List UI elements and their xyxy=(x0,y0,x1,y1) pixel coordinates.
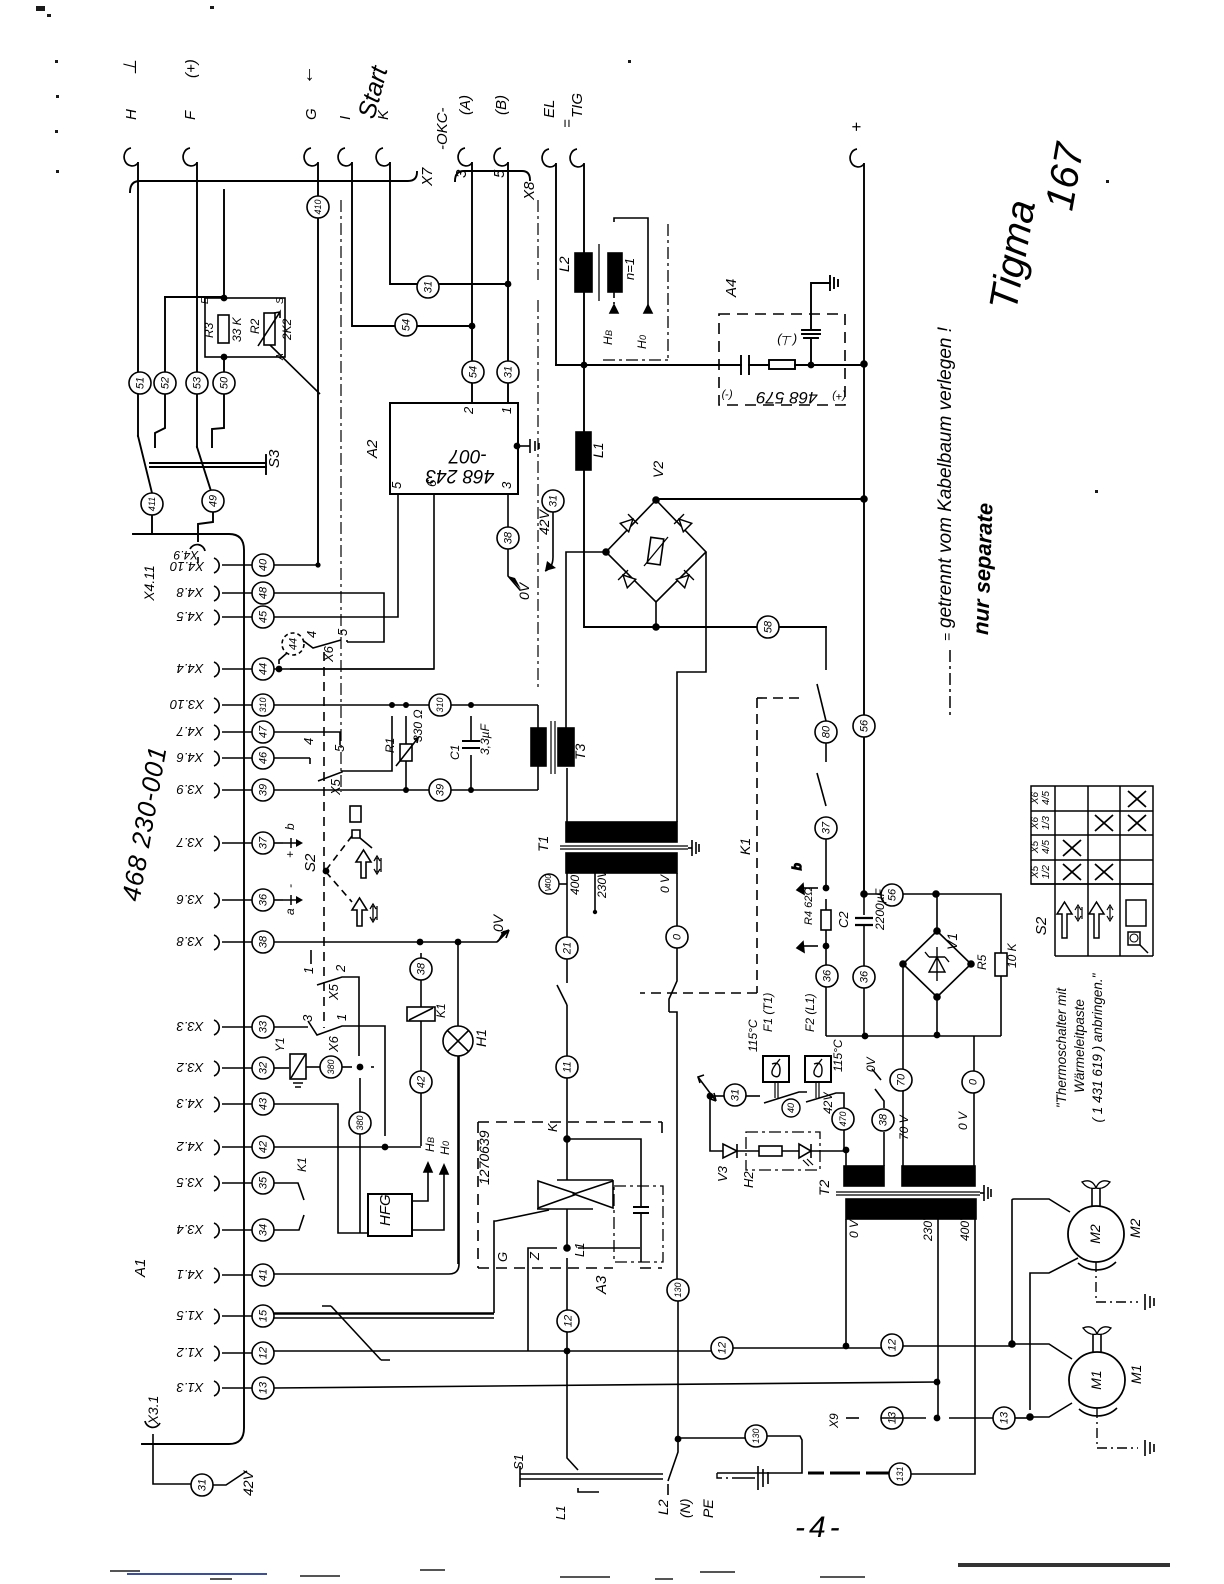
svg-text:X3.5: X3.5 xyxy=(176,1175,205,1190)
svg-text:S1: S1 xyxy=(511,1454,526,1470)
svg-text:K: K xyxy=(375,109,392,120)
svg-text:X4.6: X4.6 xyxy=(176,750,205,765)
svg-text:54: 54 xyxy=(400,319,412,331)
svg-text:X4.2: X4.2 xyxy=(176,1139,205,1154)
svg-text:13: 13 xyxy=(257,1381,269,1394)
svg-text:L2: L2 xyxy=(655,1499,671,1515)
svg-text:R1: R1 xyxy=(383,738,397,753)
svg-text:42V: 42V xyxy=(240,1469,256,1496)
svg-text:R5: R5 xyxy=(975,954,989,970)
svg-text:0 V: 0 V xyxy=(956,1111,970,1130)
svg-text:L1: L1 xyxy=(553,1506,568,1520)
svg-text:2: 2 xyxy=(333,964,348,973)
svg-text:R2: R2 xyxy=(248,318,262,334)
svg-text:15: 15 xyxy=(257,1309,269,1322)
svg-text:H1: H1 xyxy=(473,1029,489,1047)
svg-text:B: B xyxy=(604,330,614,336)
svg-text:53: 53 xyxy=(191,376,203,389)
svg-text:V1: V1 xyxy=(944,933,960,950)
svg-text:330 Ω: 330 Ω xyxy=(411,710,425,742)
svg-text:-007: -007 xyxy=(448,445,487,466)
svg-text:11: 11 xyxy=(561,1061,573,1072)
svg-text:X1.5: X1.5 xyxy=(176,1308,205,1323)
svg-text:X3.3: X3.3 xyxy=(176,1019,205,1034)
svg-text:A1: A1 xyxy=(132,1259,149,1278)
svg-text:X6: X6 xyxy=(1030,791,1041,805)
svg-text:380: 380 xyxy=(355,1115,365,1130)
svg-text:47: 47 xyxy=(257,725,269,738)
svg-text:230V: 230V xyxy=(921,1212,935,1242)
svg-text:1/2: 1/2 xyxy=(1041,865,1052,879)
svg-text:46: 46 xyxy=(257,751,269,764)
svg-text:a: a xyxy=(283,908,297,915)
svg-text:130: 130 xyxy=(751,1428,761,1443)
svg-text:50: 50 xyxy=(218,376,230,389)
svg-text:( 1 431 619 ) anbringen.": ( 1 431 619 ) anbringen." xyxy=(1090,972,1105,1122)
svg-text:=: = xyxy=(939,633,955,641)
svg-text:400V: 400V xyxy=(568,866,582,895)
svg-text:S3: S3 xyxy=(266,449,283,468)
svg-text:L2: L2 xyxy=(556,256,572,272)
svg-text:470: 470 xyxy=(838,1111,848,1126)
svg-text:=: = xyxy=(559,119,576,128)
svg-text:3: 3 xyxy=(453,169,470,178)
svg-text:T3: T3 xyxy=(572,743,588,760)
svg-text:X6: X6 xyxy=(321,645,336,663)
svg-text:37: 37 xyxy=(820,821,832,834)
svg-text:M1: M1 xyxy=(1128,1365,1144,1384)
svg-text:56: 56 xyxy=(886,888,898,901)
svg-text:X5: X5 xyxy=(326,983,341,1001)
svg-text:X7: X7 xyxy=(419,167,436,187)
svg-text:37: 37 xyxy=(257,836,269,849)
svg-text:C1: C1 xyxy=(448,745,462,760)
svg-text:X4.1: X4.1 xyxy=(177,1267,205,1282)
svg-text:X9: X9 xyxy=(827,1413,841,1429)
svg-text:42V: 42V xyxy=(821,1092,835,1114)
svg-text:Z: Z xyxy=(527,1251,542,1261)
svg-text:130: 130 xyxy=(673,1282,683,1297)
svg-text:F: F xyxy=(182,110,199,120)
svg-text:Wärmeleitpaste: Wärmeleitpaste xyxy=(1072,999,1087,1093)
svg-text:H: H xyxy=(423,1143,437,1152)
svg-text:X8: X8 xyxy=(521,181,538,201)
svg-text:K: K xyxy=(545,1122,560,1132)
svg-text:X3.8: X3.8 xyxy=(176,934,205,949)
svg-text:380: 380 xyxy=(326,1059,336,1074)
svg-text:1/3: 1/3 xyxy=(1041,816,1052,830)
svg-text:R3: R3 xyxy=(202,322,216,338)
svg-text:40: 40 xyxy=(257,558,269,571)
svg-text:33: 33 xyxy=(257,1020,269,1033)
svg-text:42: 42 xyxy=(415,1076,427,1088)
svg-text:S2: S2 xyxy=(302,853,319,872)
svg-text:-: - xyxy=(283,884,297,888)
svg-text:(⊥): (⊥) xyxy=(777,333,797,348)
svg-text:31: 31 xyxy=(422,281,434,293)
svg-text:44: 44 xyxy=(287,638,299,650)
svg-text:A2: A2 xyxy=(364,439,381,459)
svg-text:32: 32 xyxy=(257,1062,269,1074)
svg-text:1: 1 xyxy=(499,407,514,414)
svg-text:H: H xyxy=(635,340,649,349)
svg-text:3: 3 xyxy=(499,481,514,489)
svg-text:5: 5 xyxy=(332,744,347,752)
svg-text:V2: V2 xyxy=(650,461,666,478)
svg-text:4/5: 4/5 xyxy=(1041,840,1052,854)
svg-text:F1 (T1): F1 (T1) xyxy=(761,993,775,1032)
svg-text:H: H xyxy=(123,109,140,120)
svg-text:1: 1 xyxy=(334,1014,349,1021)
svg-text:40: 40 xyxy=(786,1103,796,1113)
svg-text:0V: 0V xyxy=(490,913,506,932)
svg-text:n=1: n=1 xyxy=(622,258,637,280)
svg-text:36: 36 xyxy=(257,893,269,906)
svg-text:X4.8: X4.8 xyxy=(176,585,205,600)
svg-text:X3.9: X3.9 xyxy=(177,782,205,797)
svg-text:230V: 230V xyxy=(595,869,609,899)
svg-text:EL: EL xyxy=(541,100,558,118)
svg-text:31: 31 xyxy=(729,1089,741,1101)
svg-text:31: 31 xyxy=(502,366,514,378)
svg-text:0: 0 xyxy=(671,933,683,940)
svg-text:PE: PE xyxy=(700,1499,716,1518)
svg-text:X4.3: X4.3 xyxy=(176,1096,205,1111)
svg-text:A3: A3 xyxy=(593,1275,610,1295)
svg-text:38: 38 xyxy=(257,935,269,948)
svg-text:X1.3: X1.3 xyxy=(176,1380,205,1395)
svg-text:M2: M2 xyxy=(1087,1224,1103,1244)
svg-text:44: 44 xyxy=(257,663,269,675)
svg-text:52: 52 xyxy=(159,377,171,389)
svg-text:E: E xyxy=(200,297,211,304)
svg-text:(B): (B) xyxy=(493,95,510,115)
svg-text:5: 5 xyxy=(491,169,508,178)
svg-text:42: 42 xyxy=(257,1141,269,1153)
svg-text:80: 80 xyxy=(820,725,832,738)
svg-text:0: 0 xyxy=(441,1141,451,1146)
svg-text:411: 411 xyxy=(147,497,157,511)
svg-text:HFG: HFG xyxy=(377,1194,394,1226)
svg-text:21: 21 xyxy=(561,942,573,955)
svg-text:G: G xyxy=(303,108,320,120)
svg-text:T1: T1 xyxy=(535,836,551,852)
svg-text:0: 0 xyxy=(638,335,648,340)
svg-text:K1: K1 xyxy=(295,1157,309,1172)
svg-text:X4.5: X4.5 xyxy=(176,609,205,624)
svg-text:400V: 400V xyxy=(958,1212,972,1241)
svg-text:400: 400 xyxy=(544,874,553,888)
svg-text:4: 4 xyxy=(304,631,319,638)
svg-text:L1: L1 xyxy=(572,1243,587,1257)
svg-text:5: 5 xyxy=(389,481,404,489)
svg-text:36: 36 xyxy=(821,969,833,982)
svg-text:T2: T2 xyxy=(816,1179,832,1196)
svg-text:b: b xyxy=(283,823,297,830)
svg-text:70 V: 70 V xyxy=(897,1114,911,1140)
svg-text:←: ← xyxy=(296,65,318,85)
svg-text:X4.4: X4.4 xyxy=(177,661,205,676)
svg-text:310: 310 xyxy=(435,697,445,712)
svg-text:X4.9: X4.9 xyxy=(173,548,199,562)
svg-text:0V: 0V xyxy=(864,1056,878,1072)
svg-text:115°C: 115°C xyxy=(831,1039,845,1072)
svg-text:⊥: ⊥ xyxy=(120,59,140,75)
svg-text:X6: X6 xyxy=(326,1035,341,1053)
svg-text:X1.2: X1.2 xyxy=(176,1345,205,1360)
svg-text:X3.10: X3.10 xyxy=(169,697,205,712)
svg-text:K1: K1 xyxy=(737,838,753,855)
svg-text:G: G xyxy=(495,1252,510,1262)
svg-text:2K2: 2K2 xyxy=(280,318,294,341)
svg-text:-OKC-: -OKC- xyxy=(434,108,451,151)
svg-text:H: H xyxy=(438,1146,452,1155)
svg-text:1: 1 xyxy=(301,967,316,974)
svg-text:0 V: 0 V xyxy=(658,874,672,893)
svg-text:2: 2 xyxy=(461,406,476,415)
svg-text:K1: K1 xyxy=(434,1003,448,1018)
svg-text:51: 51 xyxy=(134,377,146,389)
svg-text:X3.6: X3.6 xyxy=(176,892,205,907)
svg-text:V3: V3 xyxy=(715,1165,730,1182)
svg-text:M2: M2 xyxy=(1127,1218,1143,1238)
svg-text:4: 4 xyxy=(301,738,316,745)
svg-text:115°C: 115°C xyxy=(746,1019,760,1052)
svg-text:(A): (A) xyxy=(457,95,474,115)
svg-text:0: 0 xyxy=(967,1078,979,1085)
svg-text:468 579: 468 579 xyxy=(756,388,818,407)
svg-text:getrennt vom Kabelbaum verlege: getrennt vom Kabelbaum verlegen ! xyxy=(935,326,956,628)
svg-text:+: + xyxy=(283,851,297,858)
svg-text:(N): (N) xyxy=(677,1499,693,1518)
svg-text:35: 35 xyxy=(257,1176,269,1189)
svg-text:(+): (+) xyxy=(832,390,846,402)
svg-text:C2: C2 xyxy=(836,911,851,928)
svg-text:70: 70 xyxy=(895,1073,907,1086)
svg-text:S2: S2 xyxy=(1033,916,1050,935)
svg-text:39: 39 xyxy=(434,784,446,796)
svg-text:5: 5 xyxy=(335,628,350,636)
svg-text:-4-: -4- xyxy=(795,1511,844,1544)
svg-text:B: B xyxy=(426,1137,436,1143)
svg-text:L1: L1 xyxy=(590,442,606,458)
svg-text:36: 36 xyxy=(858,970,870,983)
svg-text:468 243: 468 243 xyxy=(425,465,494,486)
svg-text:(-): (-) xyxy=(721,389,732,401)
svg-text:V: V xyxy=(544,886,553,892)
svg-text:M1: M1 xyxy=(1088,1370,1104,1389)
svg-text:X5: X5 xyxy=(1030,865,1041,879)
svg-text:4/5: 4/5 xyxy=(1041,791,1052,805)
svg-text:38: 38 xyxy=(877,1113,889,1126)
svg-text:131: 131 xyxy=(895,1466,905,1481)
svg-text:49: 49 xyxy=(207,495,219,507)
svg-text:410: 410 xyxy=(313,199,323,214)
svg-text:A: A xyxy=(275,353,286,361)
svg-text:"Thermoschalter mit: "Thermoschalter mit xyxy=(1054,987,1069,1109)
svg-text:I: I xyxy=(337,116,354,120)
svg-text:X4.11: X4.11 xyxy=(141,565,157,602)
svg-text:10 K: 10 K xyxy=(1005,942,1019,968)
svg-text:X4.7: X4.7 xyxy=(176,724,205,739)
svg-text:H: H xyxy=(601,336,615,345)
svg-text:nur separate: nur separate xyxy=(968,502,998,635)
svg-text:33 K: 33 K xyxy=(230,316,244,342)
svg-text:58: 58 xyxy=(762,620,774,633)
svg-text:X3.7: X3.7 xyxy=(176,835,205,850)
svg-text:X3.2: X3.2 xyxy=(176,1060,205,1075)
svg-text:X3.4: X3.4 xyxy=(177,1222,205,1237)
svg-text:3: 3 xyxy=(300,1014,315,1022)
svg-text:45: 45 xyxy=(257,610,269,623)
svg-text:41: 41 xyxy=(257,1269,269,1281)
svg-text:Y1: Y1 xyxy=(273,1037,287,1052)
svg-text:(+): (+) xyxy=(183,59,200,78)
svg-text:13: 13 xyxy=(998,1411,1010,1424)
svg-text:A4: A4 xyxy=(723,279,740,298)
svg-text:12: 12 xyxy=(257,1347,269,1359)
svg-text:48: 48 xyxy=(257,586,269,599)
svg-text:54: 54 xyxy=(467,366,479,378)
svg-text:+: + xyxy=(847,122,866,132)
svg-text:34: 34 xyxy=(257,1224,269,1236)
svg-text:12: 12 xyxy=(562,1315,574,1327)
svg-text:43: 43 xyxy=(257,1097,269,1110)
svg-text:X3.1: X3.1 xyxy=(145,1396,161,1426)
svg-text:0V: 0V xyxy=(516,581,532,600)
svg-text:12: 12 xyxy=(716,1342,728,1354)
svg-text:31: 31 xyxy=(547,495,559,507)
svg-text:31: 31 xyxy=(196,1479,208,1491)
svg-text:310: 310 xyxy=(258,697,268,712)
svg-text:X6: X6 xyxy=(1030,816,1041,830)
svg-text:F2 (L1): F2 (L1) xyxy=(803,993,817,1032)
svg-text:TIG: TIG xyxy=(569,93,586,118)
svg-text:38: 38 xyxy=(415,962,427,975)
svg-text:39: 39 xyxy=(257,784,269,796)
svg-text:2200µF: 2200µF xyxy=(873,888,887,931)
svg-text:X5: X5 xyxy=(1030,840,1041,854)
svg-text:R4 62Ω: R4 62Ω xyxy=(803,887,815,925)
svg-text:1270639: 1270639 xyxy=(476,1130,492,1185)
svg-text:b: b xyxy=(790,863,804,870)
svg-text:3,3µF: 3,3µF xyxy=(478,723,492,755)
svg-text:38: 38 xyxy=(502,531,514,544)
svg-text:0 V: 0 V xyxy=(847,1219,861,1238)
svg-text:S: S xyxy=(275,297,286,304)
svg-text:56: 56 xyxy=(858,719,870,732)
svg-text:12: 12 xyxy=(886,1339,898,1351)
svg-text:H2: H2 xyxy=(741,1171,756,1188)
